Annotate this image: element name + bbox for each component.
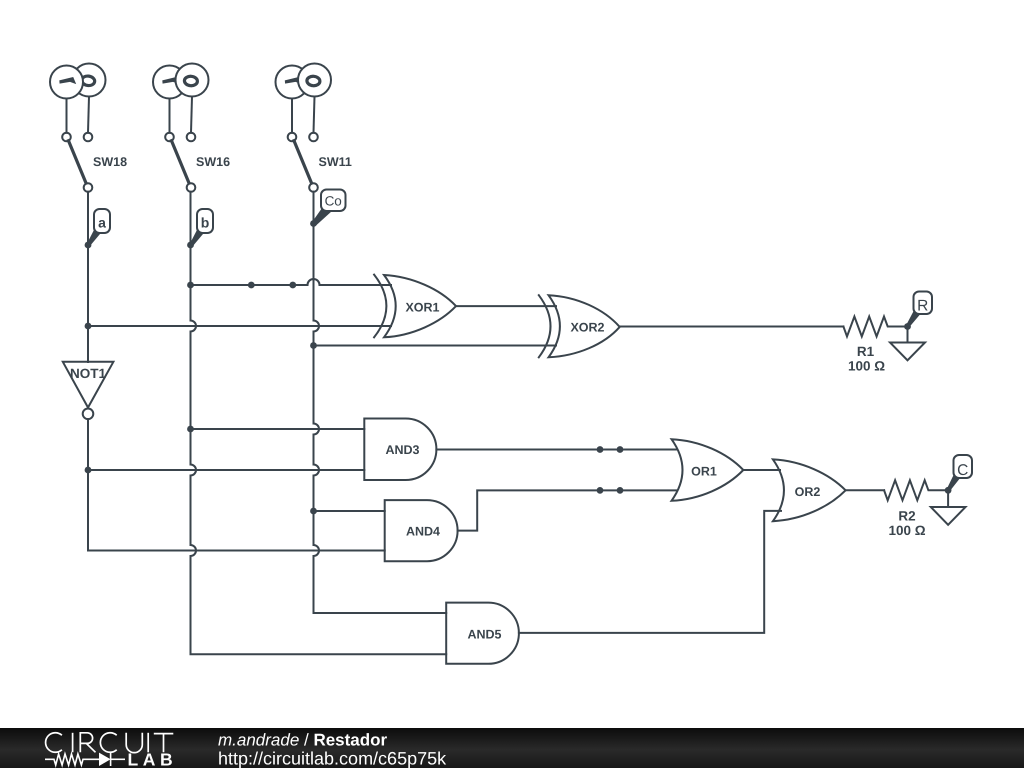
wire AND4 output to OR1 lower input bbox=[458, 490, 677, 530]
wire Co to AND4 upper input bbox=[314, 510, 385, 512]
and gate AND5 bbox=[446, 603, 519, 664]
resistor R2 bbox=[884, 480, 948, 500]
and gate AND4 bbox=[385, 500, 458, 561]
svg-text:XOR2: XOR2 bbox=[570, 321, 604, 335]
wire b to XOR1 upper input bbox=[191, 279, 392, 285]
junction dot a flag bbox=[85, 242, 92, 249]
junction dot on OR1 upper wire 1 bbox=[597, 446, 604, 453]
switch SW11 bbox=[276, 64, 332, 192]
wire OR2 output to R2 bbox=[846, 489, 885, 491]
junction dot a to XOR1 bbox=[85, 323, 92, 330]
junction dot Co to AND4 bbox=[310, 508, 317, 515]
wire XOR1 output to XOR2 upper input bbox=[456, 305, 556, 307]
node C flag bbox=[947, 455, 972, 492]
switch SW16 bbox=[153, 64, 209, 192]
wire net Co vertical bbox=[314, 192, 447, 613]
junction dot on OR1 upper wire 2 bbox=[617, 446, 624, 453]
junction dot R node bbox=[904, 323, 911, 330]
footer bar bbox=[0, 728, 1024, 768]
wire a to XOR1 lower input bbox=[88, 325, 391, 327]
svg-text:XOR1: XOR1 bbox=[405, 301, 439, 315]
wire AND5 output to OR2 lower input bbox=[519, 511, 781, 633]
resistor R1 bbox=[843, 317, 907, 337]
junction dot NOT1 to AND3 bbox=[85, 467, 92, 474]
node R flag bbox=[907, 292, 933, 328]
svg-text:R: R bbox=[917, 298, 928, 315]
or gate OR1 bbox=[672, 439, 744, 501]
junction dot C node bbox=[945, 487, 952, 494]
svg-text:m.andrade / Restador: m.andrade / Restador bbox=[218, 731, 388, 750]
svg-text:R2: R2 bbox=[898, 509, 915, 524]
junction dot Co flag bbox=[310, 220, 317, 227]
switch SW18 bbox=[50, 64, 106, 192]
junction dot b to AND3 bbox=[187, 426, 194, 433]
svg-text:a: a bbox=[98, 215, 106, 231]
node a flag bbox=[87, 209, 110, 247]
CircuitLab logo resistor-diode art bbox=[45, 753, 125, 766]
wire NOT1 to AND3 lower input bbox=[88, 469, 364, 471]
svg-text:AND3: AND3 bbox=[385, 443, 419, 457]
svg-text:R1: R1 bbox=[857, 344, 875, 359]
svg-text:Co: Co bbox=[325, 194, 342, 209]
svg-text:SW16: SW16 bbox=[196, 155, 230, 169]
junction dot on OR1 lower wire 2 bbox=[617, 487, 624, 494]
wire AND3 output to OR1 upper input bbox=[436, 449, 676, 451]
svg-text:SW11: SW11 bbox=[319, 155, 352, 169]
svg-text:SW18: SW18 bbox=[93, 155, 127, 169]
wire OR1 output to OR2 upper input bbox=[743, 469, 780, 471]
wire XOR2 output to R1 bbox=[620, 326, 844, 328]
xor gate XOR1 bbox=[374, 275, 456, 338]
svg-text:LAB: LAB bbox=[128, 750, 178, 768]
svg-text:C: C bbox=[957, 462, 968, 479]
ground for R1 bbox=[890, 327, 925, 361]
ground for R2 bbox=[931, 490, 966, 525]
wire net a vertical upper bbox=[87, 192, 89, 362]
junction dot b to XOR1 bbox=[187, 282, 194, 289]
junction dot on XOR1 upper wire 1 bbox=[248, 282, 255, 289]
CircuitLab logo text CIRCUIT bbox=[46, 733, 174, 753]
xor gate XOR2 bbox=[539, 295, 620, 357]
svg-text:100 Ω: 100 Ω bbox=[888, 523, 925, 538]
wire net b vertical bbox=[191, 192, 447, 655]
junction dot b flag bbox=[187, 242, 194, 249]
inverter NOT1 bbox=[63, 362, 114, 419]
wire NOT1 output vertical bbox=[88, 419, 385, 550]
node b flag bbox=[190, 209, 213, 247]
junction dot on XOR1 upper wire 2 bbox=[289, 282, 296, 289]
and gate AND3 bbox=[364, 419, 436, 481]
wire b to AND3 upper input bbox=[191, 428, 365, 430]
junction dot Co to XOR2 bbox=[310, 342, 317, 349]
svg-text:AND5: AND5 bbox=[467, 628, 501, 642]
or gate OR2 bbox=[773, 459, 846, 521]
svg-text:b: b bbox=[201, 215, 210, 231]
svg-text:OR2: OR2 bbox=[795, 485, 821, 499]
node Co flag bbox=[313, 190, 346, 226]
wire Co to XOR2 lower input bbox=[314, 345, 557, 347]
svg-text:AND4: AND4 bbox=[406, 525, 440, 539]
svg-text:100 Ω: 100 Ω bbox=[848, 359, 885, 374]
svg-text:http://circuitlab.com/c65p75k: http://circuitlab.com/c65p75k bbox=[218, 749, 447, 768]
svg-text:OR1: OR1 bbox=[691, 465, 717, 479]
junction dot on OR1 lower wire 1 bbox=[597, 487, 604, 494]
svg-text:NOT1: NOT1 bbox=[70, 366, 106, 381]
